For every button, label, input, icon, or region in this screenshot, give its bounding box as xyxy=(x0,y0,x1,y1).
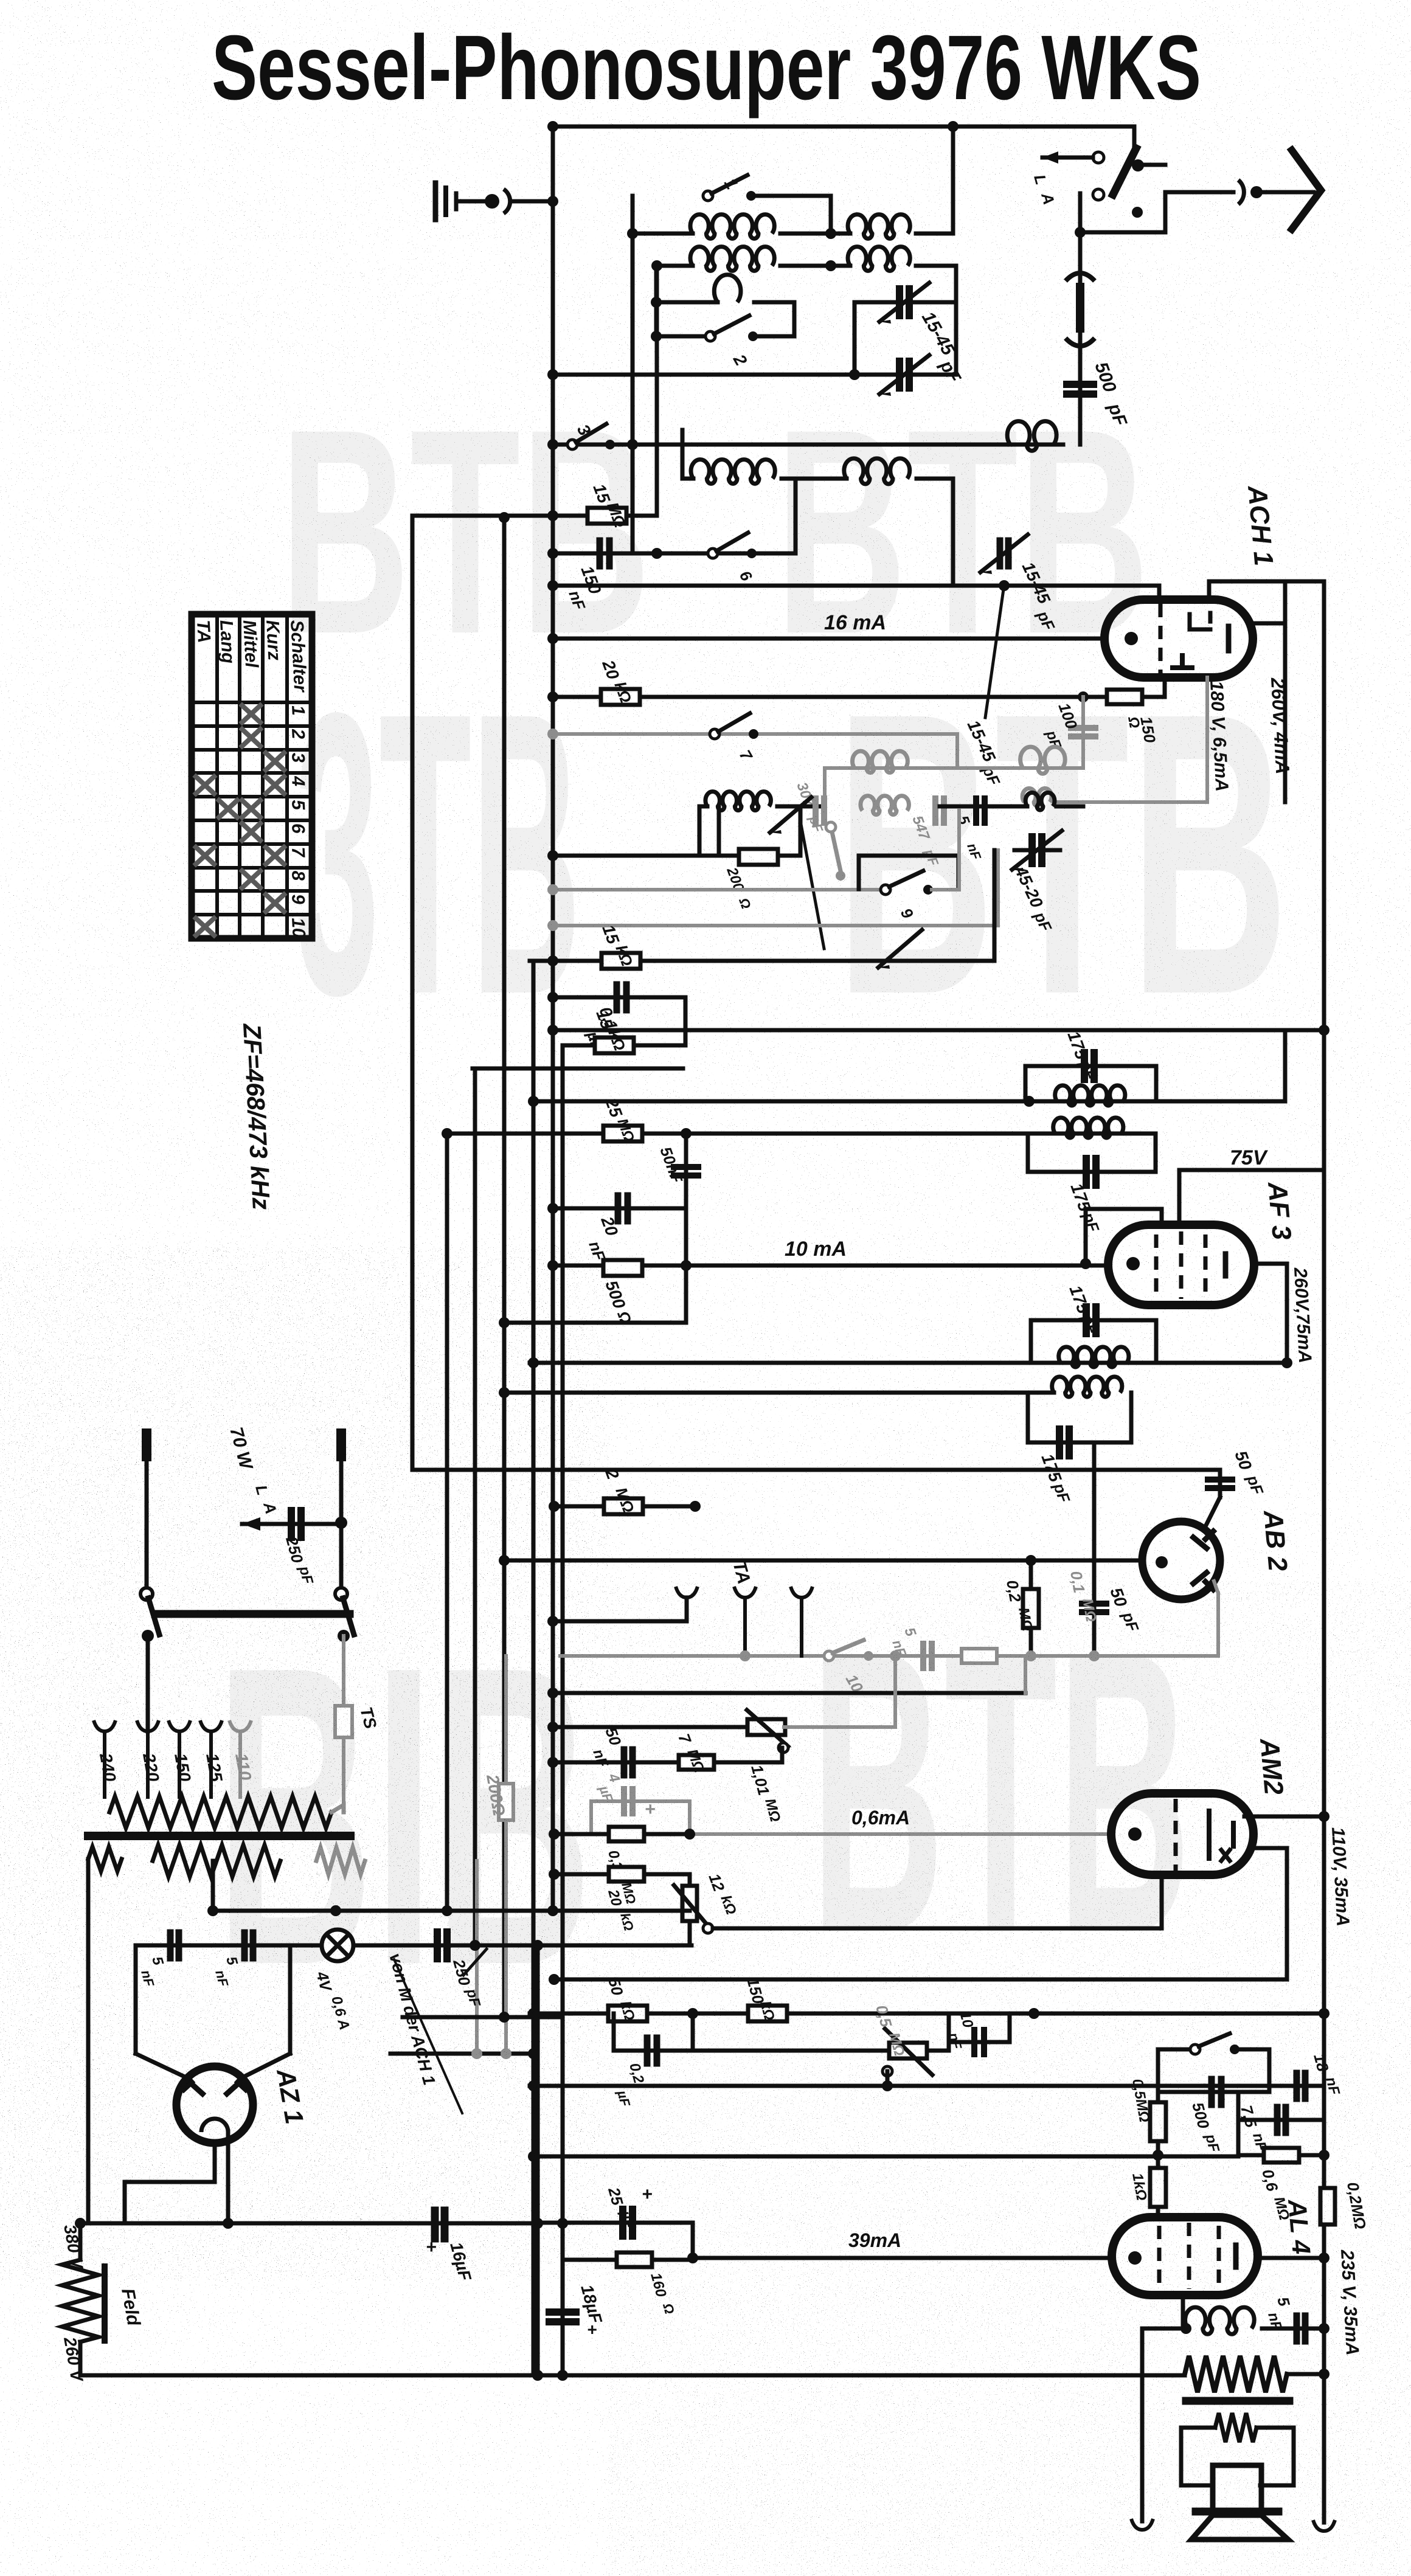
svg-text:Lang: Lang xyxy=(216,620,238,664)
svg-text:BTB: BTB xyxy=(811,1568,1191,2016)
svg-text:AB 2: AB 2 xyxy=(1258,1509,1293,1573)
svg-text:10: 10 xyxy=(288,917,309,938)
svg-text:3TB: 3TB xyxy=(295,629,581,1078)
svg-text:3: 3 xyxy=(288,752,308,764)
svg-text:+: + xyxy=(426,2237,437,2257)
svg-text:1: 1 xyxy=(288,705,308,716)
svg-text:7: 7 xyxy=(288,847,308,859)
svg-text:8: 8 xyxy=(288,870,308,882)
svg-text:+: + xyxy=(645,1799,656,1819)
svg-text:Kurz: Kurz xyxy=(262,620,284,661)
svg-text:+: + xyxy=(587,2320,597,2339)
svg-text:2: 2 xyxy=(288,728,308,740)
svg-text:0,6mA: 0,6mA xyxy=(851,1807,910,1829)
svg-text:Schalter: Schalter xyxy=(286,620,310,694)
svg-text:AM2: AM2 xyxy=(1254,1737,1289,1796)
svg-text:16 mA: 16 mA xyxy=(824,611,886,634)
svg-text:39mA: 39mA xyxy=(848,2229,901,2251)
svg-text:4: 4 xyxy=(288,775,308,787)
svg-text:AF 3: AF 3 xyxy=(1262,1180,1297,1241)
svg-text:5: 5 xyxy=(288,799,308,811)
svg-text:Mittel: Mittel xyxy=(239,620,262,669)
svg-text:75V: 75V xyxy=(1230,1146,1269,1169)
svg-text:TA: TA xyxy=(193,620,214,643)
svg-text:Sessel-Phonosuper 3976 WKS: Sessel-Phonosuper 3976 WKS xyxy=(212,16,1201,119)
svg-text:AL 4: AL 4 xyxy=(1283,2198,1316,2256)
svg-text:+: + xyxy=(642,2184,653,2204)
svg-text:0,1: 0,1 xyxy=(1067,1570,1089,1594)
svg-text:0,2: 0,2 xyxy=(1003,1579,1025,1604)
svg-text:10 mA: 10 mA xyxy=(785,1238,847,1261)
svg-text:6: 6 xyxy=(288,823,308,834)
svg-text:9: 9 xyxy=(288,893,308,905)
